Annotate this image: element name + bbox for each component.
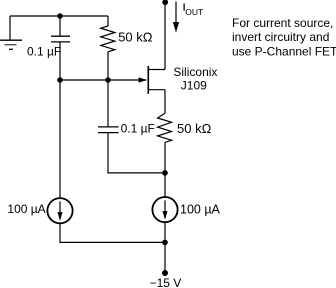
- wire resistor R2 to current source I2: [164, 142, 166, 196]
- current source I1 circle: [47, 198, 72, 223]
- svg-text:50 kΩ: 50 kΩ: [118, 30, 153, 45]
- node gate junction dot right: [105, 77, 111, 83]
- svg-text:use P-Channel FET.: use P-Channel FET.: [232, 44, 336, 58]
- svg-text:50 kΩ: 50 kΩ: [177, 121, 212, 136]
- node A junction dot top cap: [57, 13, 63, 19]
- wire capacitor C2 bottom L-branch: [108, 133, 165, 173]
- wire gate: [60, 79, 146, 81]
- gate arrowhead of FET Q1: [139, 77, 148, 82]
- current source I1 arrow: [58, 201, 63, 221]
- svg-text:OUT: OUT: [185, 7, 203, 17]
- wire resistor R1 bottom to capacitor C2: [107, 52, 109, 127]
- resistor R2 50 kOhm: [158, 113, 172, 142]
- node bottom rail junction dot: [162, 240, 168, 246]
- current source I2 arrow: [163, 200, 168, 220]
- current arrow IOUT: [173, 2, 179, 33]
- svg-text:100 µA: 100 µA: [7, 202, 45, 216]
- svg-text:0.1 µF: 0.1 µF: [121, 121, 155, 135]
- svg-text:100 µA: 100 µA: [180, 202, 221, 216]
- wire drain vertical: [164, 3, 166, 70]
- resistor R1 50 kOhm: [101, 26, 115, 52]
- svg-text:invert circuitry and: invert circuitry and: [232, 30, 329, 44]
- node -15V terminal dot: [162, 270, 168, 276]
- node gate junction dot left: [57, 77, 63, 83]
- capacitor C2 0.1 uF middle: [98, 127, 119, 133]
- wire top rail: [10, 15, 108, 17]
- current source I2 circle: [152, 197, 177, 222]
- svg-text:Siliconix: Siliconix: [173, 65, 217, 79]
- node IOUT terminal dot: [162, 0, 168, 5]
- wire source vertical: [164, 90, 166, 114]
- wire ground drop: [9, 16, 11, 40]
- label IOUT: [183, 2, 204, 17]
- svg-text:0.1 µF: 0.1 µF: [27, 44, 61, 58]
- svg-text:−15 V: −15 V: [150, 276, 182, 288]
- wire resistor R1 top stub: [107, 16, 109, 26]
- transistor Q1 source stub: [148, 89, 165, 91]
- svg-text:J109: J109: [181, 79, 207, 93]
- transistor Q1 drain stub: [148, 69, 165, 71]
- svg-text:For current source,: For current source,: [232, 16, 333, 30]
- capacitor C1 0.1 uF top: [51, 16, 70, 42]
- node source junction dot: [162, 170, 168, 176]
- wire left vertical: [59, 42, 61, 198]
- transistor Q1 JFET channel bar: [147, 66, 149, 94]
- ground: [0, 40, 22, 49]
- wire current source I2 bottom: [164, 223, 166, 274]
- wire current source I1 bottom: [60, 224, 165, 243]
